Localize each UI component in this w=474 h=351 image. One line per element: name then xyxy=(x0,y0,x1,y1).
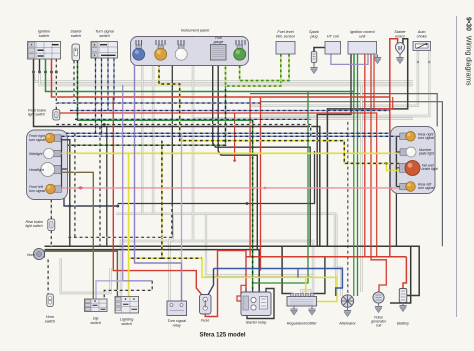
wire: grey vertical x142 from blue bulb to y214 bus xyxy=(141,64,143,214)
front lights panel xyxy=(27,130,68,200)
wire: dashed black horn button drop xyxy=(47,260,49,295)
LABELS_START xyxy=(38,29,427,339)
wire: red brake light bus y113 xyxy=(56,113,376,257)
turn signal relay xyxy=(167,301,187,316)
svg-text:Ignition: Ignition xyxy=(38,30,50,34)
svg-text:9•30 Wiring diagrams: 9•30 Wiring diagrams xyxy=(465,17,472,86)
wire: ignition pin2 black stub xyxy=(39,59,41,72)
regulator rectifier xyxy=(287,293,317,306)
svg-text:switch: switch xyxy=(45,320,56,324)
wire: black HT coil to spark plug xyxy=(314,48,325,52)
bulb turn-signal warning (blue) xyxy=(136,45,142,49)
starter relay xyxy=(241,289,271,316)
wire: red bottom bus y256.8 xyxy=(246,256,406,258)
wire: grey turn signal relay feed xyxy=(170,214,173,301)
svg-text:Horn: Horn xyxy=(27,253,35,257)
wire: white/grey bus y81.5 ignition to auto choke xyxy=(34,74,413,82)
wire: dashed black dip switch link xyxy=(104,281,152,299)
dip switch xyxy=(85,299,108,312)
svg-text:Horn: Horn xyxy=(46,315,54,319)
wire: black horn bus y249.6 to starter relay xyxy=(45,250,260,292)
svg-text:Fuse: Fuse xyxy=(201,319,209,323)
wire: black fuel gauge lead 2 down right and down xyxy=(218,62,257,250)
wire: grey vertical x153.1 panel drop xyxy=(152,64,154,214)
horn xyxy=(33,248,44,259)
wire: junction dots dashed bus y124.5 xyxy=(79,123,82,126)
wire: turn signal switch dashed drop b xyxy=(101,58,103,136)
wire: black x410.7 down to y303 left xyxy=(390,246,411,303)
ground: battery xyxy=(399,303,406,312)
starter switch xyxy=(72,44,80,61)
svg-text:switch: switch xyxy=(121,322,132,326)
wire: turn signal switch dashed drop c xyxy=(107,58,109,111)
wire: black front panel earth bus xyxy=(57,140,70,246)
wire: yellow sidelight bus y153 full width xyxy=(61,152,403,154)
wire: green ignition y91.5 across to ICU xyxy=(46,54,355,92)
starter motor xyxy=(395,43,404,55)
wire: yellow dashed relay drop x202 xyxy=(129,141,202,259)
wire: front brake switch dashed top xyxy=(55,103,57,110)
svg-text:plate light: plate light xyxy=(418,152,435,156)
fuel level sensor xyxy=(276,42,295,55)
svg-text:Fuel level: Fuel level xyxy=(277,30,293,34)
wire: dashed white vertical x100 xyxy=(99,127,101,247)
instrument panel xyxy=(131,37,249,66)
front left turn signal bulb xyxy=(46,184,62,194)
fuel gauge xyxy=(211,45,227,61)
wire: white loop bottom-left xyxy=(61,258,111,293)
svg-text:Dip: Dip xyxy=(93,317,99,321)
wire: navy headlight lead down and across xyxy=(58,169,118,206)
svg-text:Headlight: Headlight xyxy=(29,168,45,172)
wire: purple blue-bulb drop to relay y263 xyxy=(135,64,182,301)
ground: pulse generator coil xyxy=(375,304,382,313)
wire: red battery feed xyxy=(403,257,406,289)
svg-text:Spark: Spark xyxy=(309,30,320,34)
wire: grey bus y241 lighting switch to regulator xyxy=(121,241,313,297)
alternator xyxy=(341,295,353,307)
wire: red x234.6 drop xyxy=(234,113,236,161)
wire: purple x122.7 drop to lavender bus xyxy=(123,85,153,281)
horn switch xyxy=(47,294,54,307)
svg-text:Turn signal: Turn signal xyxy=(167,319,186,323)
svg-text:switch: switch xyxy=(90,321,101,325)
wire: brown bus y251.2 xyxy=(45,251,118,296)
wire: junction dots navy segment y206 xyxy=(68,205,71,208)
wire: yellow-green fuel sensor to gauge xyxy=(226,54,281,86)
wire: green alternator second x353.8 xyxy=(353,92,355,297)
wire: blue regulator spur xyxy=(297,269,299,278)
svg-text:switch: switch xyxy=(99,34,110,38)
wire: black rear panel earth bus xyxy=(396,136,400,186)
wire: dashed black vertical x74.9 xyxy=(74,133,76,237)
bulb fuel warning (green) xyxy=(237,45,243,49)
svg-text:plug: plug xyxy=(309,35,318,39)
svg-text:Turn signal: Turn signal xyxy=(95,30,114,34)
wire: yellow regulator pair xyxy=(202,258,337,301)
wire: blue dashed front to rear turn signal y136.3 xyxy=(61,135,401,137)
wire: white fuse feed x206 xyxy=(206,214,313,276)
svg-text:HT coil: HT coil xyxy=(327,35,339,39)
wire: purple HT coil to ICU link xyxy=(331,54,368,64)
wire: front panel internal stubs xyxy=(54,136,70,188)
pulse generator coil xyxy=(373,292,384,303)
ground: ignition control unit xyxy=(374,54,378,56)
HT coil xyxy=(325,42,341,55)
wire: junction dot pink xyxy=(78,186,84,190)
wire: white/grey bus y85 xyxy=(40,74,414,85)
wire: black regulator feed x282 xyxy=(282,246,292,296)
wire: lavender bus y280.8 to dip xyxy=(96,281,123,299)
svg-text:switch: switch xyxy=(71,34,82,38)
wire: black starter motor lead left and down xyxy=(327,39,407,246)
svg-text:turn signal: turn signal xyxy=(418,136,434,140)
svg-text:brake light: brake light xyxy=(422,167,439,171)
svg-text:motor: motor xyxy=(395,35,405,39)
svg-text:relay: relay xyxy=(173,324,182,328)
wire: grey alternator second lead xyxy=(335,214,337,296)
wire: green starter switch to y101.3 bus to starter relay xyxy=(78,61,253,293)
svg-text:W/L sensor: W/L sensor xyxy=(276,35,296,39)
spark plug xyxy=(311,52,317,65)
wire: lavender relay riser x181.5 xyxy=(181,133,183,263)
rear left turn signal bulb xyxy=(400,182,416,192)
sidelight bulb xyxy=(44,148,61,158)
lighting switch xyxy=(115,297,139,314)
wire: red starter relay feed xyxy=(245,251,247,293)
wire: front panel internal earth bus xyxy=(61,138,63,188)
wire: red starter motor drop x390.6 xyxy=(390,39,398,257)
ground: regulator left xyxy=(290,306,297,315)
svg-text:Battery: Battery xyxy=(397,322,410,326)
wire: red ICU lead x371 down xyxy=(371,54,386,292)
svg-text:turn signal: turn signal xyxy=(29,189,45,193)
wire: yellow tail light second lead xyxy=(386,163,401,170)
ground: spark plug xyxy=(310,65,317,74)
wire: light grey y118.7 xyxy=(193,117,413,119)
svg-text:light switch: light switch xyxy=(28,113,45,117)
wire: black meter bulb drop x172.3 xyxy=(171,64,173,237)
wire: red fuse right arm to relay xyxy=(205,251,246,317)
svg-text:gauge: gauge xyxy=(214,40,224,44)
bulb high beam (amber) xyxy=(158,45,164,49)
wire: red ICU lead to y108.7 spur xyxy=(374,54,393,109)
svg-text:light switch: light switch xyxy=(26,224,43,228)
wire: blue battery charge wire fuse to alternator xyxy=(207,269,214,298)
headlight bulb xyxy=(41,163,61,177)
rear lights panel xyxy=(391,127,436,194)
wire: black fuel gauge lead 1 down right and down xyxy=(213,62,311,246)
svg-text:Sidelight: Sidelight xyxy=(29,152,43,156)
wire: front turn signal lamp black return xyxy=(61,139,70,141)
auto choke xyxy=(413,42,431,51)
wire: green solid x308 drop to relay xyxy=(253,92,308,284)
wire: dark grey wire x442.4 down to black bus xyxy=(260,102,442,247)
number plate light bulb xyxy=(400,147,416,157)
wire: black rear panel bus down to y246 xyxy=(395,187,397,247)
svg-text:Starter: Starter xyxy=(70,30,82,34)
wire: grey bus y213.8 to alternator xyxy=(116,214,341,296)
wire: grey vertical x193 panel white bulb down xyxy=(192,64,194,241)
battery xyxy=(399,289,407,303)
wire: dark grey wire to rear panel right x437.2 xyxy=(250,94,437,127)
wire: yellow regulator top lead xyxy=(305,277,307,296)
wire: grey dashed alternator drop x347.8 xyxy=(347,122,349,293)
wire: grey alternator drop x361.4 xyxy=(360,85,362,292)
tail and brake light bulb xyxy=(400,161,421,176)
wire: blue dashed bus y119.4 xyxy=(75,118,311,120)
wire: red starter relay jumper xyxy=(237,285,246,301)
bulb meter light (white) xyxy=(179,45,185,49)
svg-text:Starter relay: Starter relay xyxy=(246,321,268,325)
wire: rear brake switch dashed up to pink bus xyxy=(50,188,52,219)
fuse xyxy=(200,295,212,315)
svg-text:unit: unit xyxy=(359,35,366,39)
wire: turn signal switch dashed drop a xyxy=(95,58,97,133)
wire: yellow-green fuel sensor to warning bulb xyxy=(240,54,289,81)
wire: red ignition feed y97 across xyxy=(52,59,390,97)
svg-text:turn signal: turn signal xyxy=(418,186,434,190)
wire: black-white dashed bus y124.5 xyxy=(56,125,310,137)
turn signal switch xyxy=(91,42,118,59)
svg-text:turn signal: turn signal xyxy=(29,138,45,142)
svg-text:Instrument panel: Instrument panel xyxy=(181,29,209,33)
wire: blue dashed bus y110.5 xyxy=(70,110,390,112)
ground: starter motor xyxy=(396,55,403,64)
wire: red x260.5 drop xyxy=(260,97,262,271)
wire: junction dots under ignition switch xyxy=(32,71,58,74)
wire: starter switch dashed lead xyxy=(73,61,75,102)
ground: regulator right xyxy=(308,306,315,315)
rear right turn signal bulb xyxy=(400,132,416,142)
svg-text:Ignition control: Ignition control xyxy=(350,30,375,34)
wire: black x106.8 drop xyxy=(106,127,108,247)
wire: rear brake switch dashed down xyxy=(50,231,52,247)
svg-text:choke: choke xyxy=(417,35,427,39)
svg-text:Sfera 125 model: Sfera 125 model xyxy=(199,333,245,339)
svg-text:coil: coil xyxy=(376,324,381,328)
page margin rule xyxy=(456,16,458,317)
svg-text:Auto: Auto xyxy=(417,30,426,34)
wire: auto choke right grey lead down-left xyxy=(260,51,429,117)
wire: red x113.3 drop to fuse xyxy=(113,97,204,298)
svg-text:Alternator: Alternator xyxy=(338,322,356,326)
front right turn signal bulb xyxy=(45,133,61,143)
wire: rear panel internal stubs xyxy=(391,136,401,188)
wire: auto choke left grey lead down-left xyxy=(250,51,418,106)
wire: black starter relay loop xyxy=(247,289,274,319)
wire: yellow-black dashed turn lamp to tail light xyxy=(159,64,401,163)
svg-text:Regulator/rectifier: Regulator/rectifier xyxy=(287,322,318,326)
wire: junction dot tail light yellow xyxy=(385,162,388,165)
wire: ignition accessory dashed drop xyxy=(55,59,57,103)
wire: blue-black dashed bus y103 xyxy=(56,102,260,104)
wire: junction dots auto choke xyxy=(417,61,431,64)
front brake light switch xyxy=(53,110,60,121)
ground: alternator xyxy=(344,308,351,317)
svg-text:Starter: Starter xyxy=(394,30,406,34)
wire: pink bus front-left to rear-left turn signal y188.5 xyxy=(61,187,403,189)
ignition control unit xyxy=(348,42,377,55)
wire: brown headlight lead to dip switch xyxy=(58,172,94,299)
wire: black horn bus y246.2 to far right xyxy=(45,246,420,295)
wire: black bus y203.5 center xyxy=(118,151,315,204)
wire: yellow lighting switch drop x128.6 xyxy=(128,153,130,296)
rear brake light switch xyxy=(48,219,55,231)
wire: red x250.1 drop xyxy=(249,97,251,257)
wire: black from ignition pin1 down to y126.5 bus across xyxy=(34,59,320,246)
wire: blue dashed bus y133.3 xyxy=(60,132,390,134)
wire: green dashed bus y145 xyxy=(66,86,226,145)
wire: turn signal switch dashed drop d xyxy=(113,58,115,103)
wire: dashed black bus y237.3 xyxy=(68,206,171,237)
wire: red ICU lead x364.8 down to bus xyxy=(364,54,366,257)
svg-text:switch: switch xyxy=(39,34,50,38)
wire: black regulator second x324.9 xyxy=(311,257,325,296)
svg-text:Lighting: Lighting xyxy=(120,318,134,322)
ignition switch xyxy=(28,42,61,60)
wire: green ICU drop x357.5 to alternator xyxy=(357,54,359,296)
wire: black ICU pin lead left and down xyxy=(317,54,351,246)
